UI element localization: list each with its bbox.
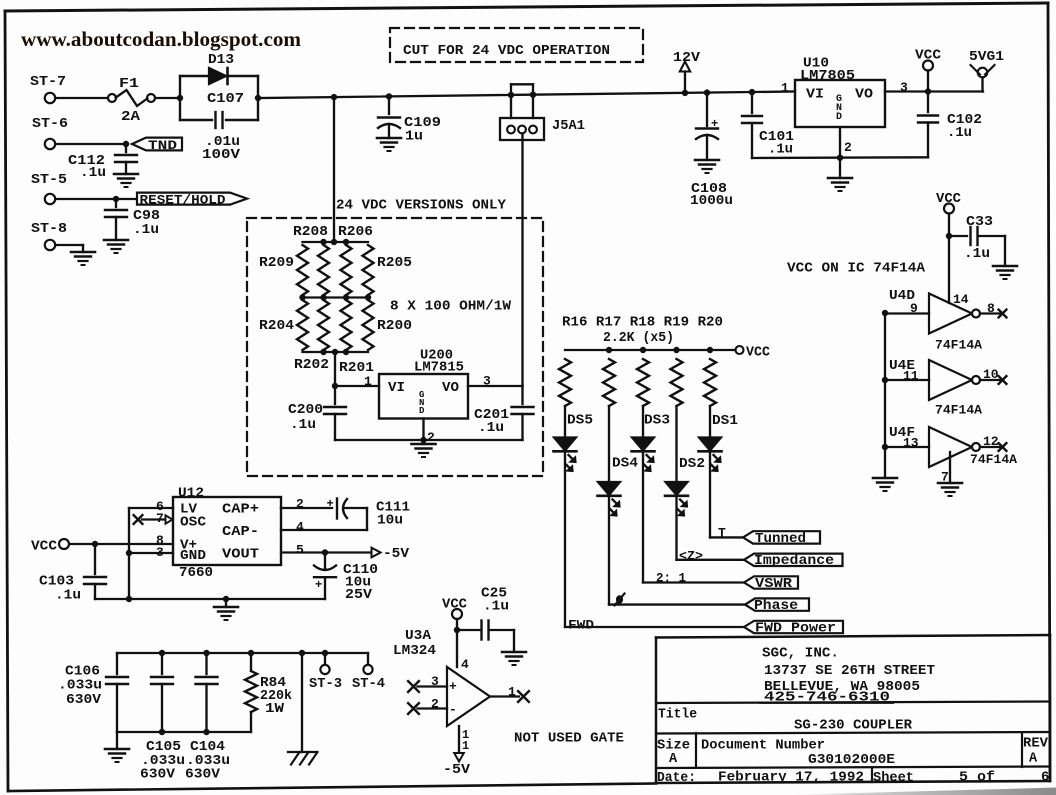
svg-text:DS1: DS1 bbox=[712, 413, 738, 429]
svg-text:A: A bbox=[669, 752, 678, 767]
svg-text:.1u: .1u bbox=[80, 165, 106, 181]
svg-text:3: 3 bbox=[156, 545, 164, 560]
svg-text:.1u: .1u bbox=[947, 125, 972, 141]
svg-text:.1u: .1u bbox=[483, 599, 509, 615]
svg-text:ST-3: ST-3 bbox=[309, 677, 342, 692]
svg-text:100V: 100V bbox=[202, 147, 241, 163]
svg-text:24 VDC VERSIONS ONLY: 24 VDC VERSIONS ONLY bbox=[336, 198, 507, 214]
svg-text:1u: 1u bbox=[405, 129, 423, 145]
svg-text:7: 7 bbox=[156, 511, 164, 526]
svg-text:.1u: .1u bbox=[55, 588, 81, 604]
svg-text:.1u: .1u bbox=[478, 420, 504, 436]
svg-text:R208: R208 bbox=[293, 224, 328, 240]
svg-text:2: 1: 2: 1 bbox=[656, 571, 686, 586]
svg-text:T: T bbox=[718, 526, 726, 541]
svg-text:R205: R205 bbox=[377, 255, 412, 271]
svg-text:4: 4 bbox=[461, 657, 469, 672]
svg-text:LM324: LM324 bbox=[393, 643, 436, 659]
svg-text:Sheet: Sheet bbox=[873, 771, 914, 786]
svg-text:ST-5: ST-5 bbox=[31, 172, 67, 188]
svg-text:2: 2 bbox=[296, 497, 304, 512]
svg-text:25V: 25V bbox=[345, 587, 373, 603]
svg-text:.1u: .1u bbox=[133, 222, 159, 238]
svg-text:-5V: -5V bbox=[383, 546, 410, 562]
svg-text:1: 1 bbox=[364, 374, 372, 389]
svg-text:8 X 100 OHM/1W: 8 X 100 OHM/1W bbox=[390, 299, 512, 315]
svg-text:<Z>: <Z> bbox=[679, 548, 703, 563]
svg-text:3: 3 bbox=[483, 374, 491, 389]
svg-text:12: 12 bbox=[983, 434, 999, 449]
svg-text:5: 5 bbox=[296, 543, 304, 558]
svg-text:R204: R204 bbox=[259, 318, 294, 334]
svg-text:VO: VO bbox=[855, 87, 873, 103]
svg-text:1: 1 bbox=[781, 81, 789, 96]
svg-text:-: - bbox=[449, 702, 457, 717]
svg-text:A: A bbox=[1029, 752, 1038, 767]
svg-text:U3A: U3A bbox=[405, 628, 432, 644]
svg-text:LM7805: LM7805 bbox=[800, 68, 855, 84]
svg-text:ST-8: ST-8 bbox=[31, 221, 67, 237]
svg-text:8: 8 bbox=[987, 301, 995, 316]
svg-text:R202: R202 bbox=[294, 357, 329, 373]
svg-text:+: + bbox=[327, 497, 334, 511]
svg-text:R209: R209 bbox=[259, 255, 294, 271]
svg-text:C33: C33 bbox=[966, 214, 993, 230]
svg-text:Document Number: Document Number bbox=[701, 739, 825, 754]
svg-text:74F14A: 74F14A bbox=[935, 338, 982, 353]
svg-text:.1u: .1u bbox=[290, 417, 316, 433]
svg-text:OSC: OSC bbox=[180, 516, 206, 531]
svg-text:REV: REV bbox=[1023, 737, 1049, 752]
svg-text:DS3: DS3 bbox=[644, 413, 670, 429]
svg-text:+: + bbox=[449, 679, 457, 694]
svg-text:FWD Power: FWD Power bbox=[755, 621, 836, 636]
svg-text:www.aboutcodan.blogspot.com: www.aboutcodan.blogspot.com bbox=[21, 27, 302, 51]
svg-text:Title: Title bbox=[658, 708, 697, 723]
svg-text:74F14A: 74F14A bbox=[935, 403, 982, 418]
svg-text:2: 2 bbox=[431, 697, 439, 712]
svg-text:SGC, INC.: SGC, INC. bbox=[762, 646, 839, 662]
svg-text:1: 1 bbox=[508, 685, 516, 700]
svg-text:F1: F1 bbox=[119, 76, 139, 92]
svg-text:1: 1 bbox=[462, 739, 469, 753]
svg-text:Date:: Date: bbox=[657, 771, 696, 786]
svg-text:VI: VI bbox=[388, 381, 405, 396]
svg-text:U4E: U4E bbox=[889, 358, 915, 374]
svg-text:RESET/HOLD: RESET/HOLD bbox=[140, 193, 227, 207]
svg-text:G30102000E: G30102000E bbox=[808, 752, 895, 768]
svg-text:10u: 10u bbox=[377, 513, 403, 529]
svg-text:J5A1: J5A1 bbox=[552, 119, 585, 134]
svg-text:Impedance: Impedance bbox=[754, 554, 834, 569]
svg-text:ST-4: ST-4 bbox=[352, 677, 385, 692]
svg-text:D: D bbox=[836, 112, 842, 123]
svg-text:VO: VO bbox=[442, 381, 459, 396]
svg-text:+: + bbox=[315, 578, 322, 592]
svg-text:VCC: VCC bbox=[31, 539, 58, 555]
svg-text:4: 4 bbox=[296, 520, 304, 535]
svg-text:1W: 1W bbox=[265, 701, 285, 717]
svg-text:630V: 630V bbox=[140, 767, 176, 783]
svg-text:Phase: Phase bbox=[754, 599, 798, 614]
svg-text:FWD: FWD bbox=[568, 618, 594, 633]
svg-text:DS5: DS5 bbox=[567, 413, 593, 429]
svg-text:2A: 2A bbox=[121, 109, 141, 125]
svg-text:74F14A: 74F14A bbox=[970, 452, 1017, 467]
svg-text:2: 2 bbox=[844, 140, 852, 155]
svg-text:DS2: DS2 bbox=[679, 456, 705, 472]
svg-text:C200: C200 bbox=[288, 402, 323, 418]
svg-text:D: D bbox=[419, 406, 425, 416]
svg-text:630V: 630V bbox=[185, 767, 221, 783]
svg-text:U12: U12 bbox=[178, 486, 204, 502]
svg-text:CAP-: CAP- bbox=[222, 525, 259, 540]
svg-text:10: 10 bbox=[983, 367, 999, 382]
svg-text:SG-230 COUPLER: SG-230 COUPLER bbox=[794, 718, 913, 734]
svg-text:Tunned: Tunned bbox=[755, 532, 806, 547]
svg-text:ST-7: ST-7 bbox=[30, 74, 66, 90]
svg-text:5 of: 5 of bbox=[959, 770, 995, 786]
svg-text:R200: R200 bbox=[377, 318, 412, 334]
svg-text:NOT USED GATE: NOT USED GATE bbox=[514, 731, 624, 747]
svg-text:U4F: U4F bbox=[889, 425, 915, 441]
svg-text:1000u: 1000u bbox=[690, 193, 733, 209]
svg-text:R206: R206 bbox=[338, 224, 373, 240]
svg-text:630V: 630V bbox=[66, 692, 102, 708]
svg-text:D13: D13 bbox=[208, 52, 234, 68]
svg-text:CUT FOR 24 VDC OPERATION: CUT FOR 24 VDC OPERATION bbox=[403, 43, 610, 59]
svg-text:C107: C107 bbox=[207, 91, 244, 107]
svg-text:7660: 7660 bbox=[179, 565, 213, 581]
svg-text:CAP+: CAP+ bbox=[222, 503, 259, 518]
svg-text:U4D: U4D bbox=[889, 288, 915, 304]
svg-text:GND: GND bbox=[180, 549, 206, 564]
svg-text:6: 6 bbox=[1041, 770, 1049, 786]
svg-text:R16 R17 R18 R19 R20: R16 R17 R18 R19 R20 bbox=[562, 315, 723, 331]
svg-text:DS4: DS4 bbox=[612, 456, 638, 472]
svg-text:.1u: .1u bbox=[964, 246, 990, 262]
svg-text:5VG1: 5VG1 bbox=[969, 49, 1004, 65]
svg-text:February 17, 1992: February 17, 1992 bbox=[718, 770, 864, 786]
svg-text:VCC ON IC 74F14A: VCC ON IC 74F14A bbox=[787, 261, 926, 277]
svg-text:TND: TND bbox=[148, 138, 177, 153]
svg-text:-5V: -5V bbox=[443, 762, 471, 778]
svg-text:LM7815: LM7815 bbox=[414, 360, 464, 376]
svg-text:13737 SE 26TH STREET: 13737 SE 26TH STREET bbox=[764, 663, 935, 679]
svg-text:3: 3 bbox=[900, 80, 908, 95]
svg-text:VCC: VCC bbox=[746, 345, 771, 361]
svg-text:VSWR: VSWR bbox=[755, 577, 793, 592]
svg-text:ST-6: ST-6 bbox=[32, 116, 68, 132]
svg-text:2.2K (x5): 2.2K (x5) bbox=[603, 330, 674, 346]
svg-text:VI: VI bbox=[806, 87, 824, 103]
svg-text:.1u: .1u bbox=[768, 142, 793, 158]
svg-text:14: 14 bbox=[953, 292, 969, 307]
svg-text:3: 3 bbox=[431, 674, 439, 689]
svg-text:VOUT: VOUT bbox=[222, 548, 259, 563]
